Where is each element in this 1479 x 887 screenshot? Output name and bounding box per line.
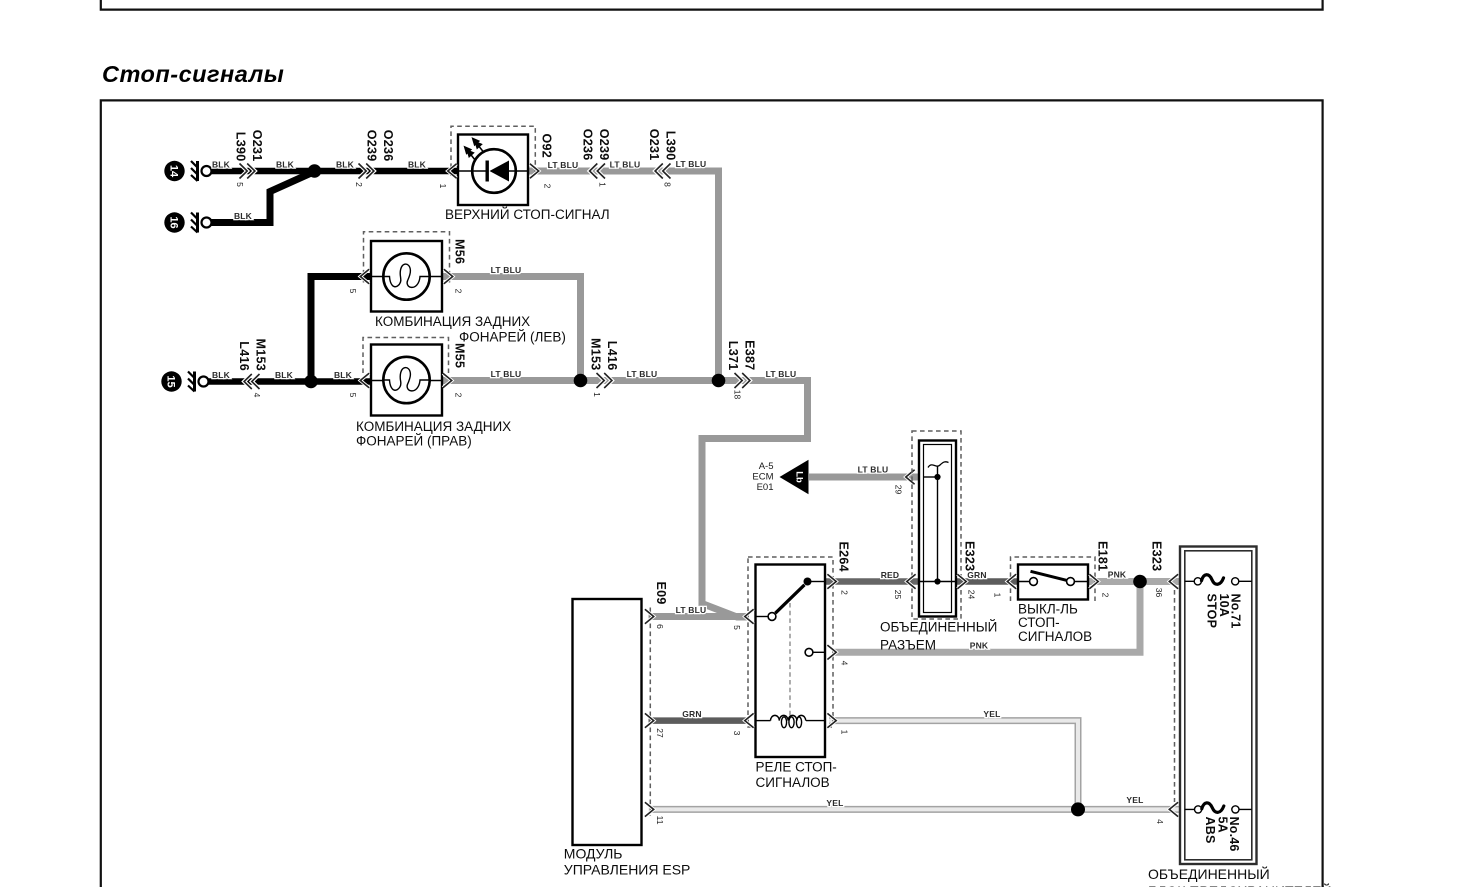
svg-text:L390: L390: [234, 132, 248, 162]
M55 pin 2 chevron: [443, 373, 452, 387]
main diagram frame: [101, 100, 1323, 887]
connector L390/O231 pin 8: [647, 129, 678, 187]
svg-text:E323: E323: [1150, 541, 1164, 571]
svg-text:2: 2: [454, 393, 464, 398]
rear combination lamp RIGHT M55 : body: [371, 345, 442, 416]
lamp pin 1 chevron: [448, 164, 457, 178]
svg-text:E264: E264: [837, 542, 851, 572]
svg-text:ФОНАРЕЙ (ЛЕВ): ФОНАРЕЙ (ЛЕВ): [459, 330, 566, 345]
ground 16: [164, 212, 211, 232]
svg-text:2: 2: [543, 184, 553, 189]
svg-text:M55: M55: [453, 343, 467, 368]
previous diagram frame (bottom edge, top of page): [101, 0, 1323, 10]
svg-text:LT BLU: LT BLU: [491, 265, 522, 275]
svg-text:O231: O231: [250, 130, 264, 162]
connector O231/L390 pin 5: [234, 130, 265, 187]
ECM arrow A-5: [780, 460, 809, 494]
svg-text:O239: O239: [597, 129, 611, 161]
svg-text:РЕЛЕ СТОП-: РЕЛЕ СТОП-: [756, 760, 837, 775]
wire PNK: junction down and left to relay pin 4: [832, 582, 1140, 653]
svg-text:E01: E01: [757, 482, 774, 493]
ESP connector dashed line E09: [649, 608, 651, 817]
rear combination lamp RIGHT M55 : dashed outline: [363, 338, 449, 374]
svg-text:5: 5: [732, 625, 742, 630]
svg-text:M153: M153: [254, 339, 268, 371]
svg-text:BLK: BLK: [234, 211, 253, 221]
svg-text:M56: M56: [453, 239, 467, 264]
node: junction of ground wires: [308, 164, 322, 178]
svg-text:RED: RED: [881, 570, 900, 580]
svg-text:1: 1: [993, 593, 1003, 598]
svg-text:LT BLU: LT BLU: [858, 465, 889, 475]
LED emission arrows: [465, 139, 484, 161]
connector M153/L416 pin 4: [237, 339, 268, 398]
svg-text:L371: L371: [726, 341, 740, 371]
svg-text:GRN: GRN: [967, 570, 987, 580]
fuse box pin 4 chevron: [1169, 802, 1178, 816]
svg-text:PNK: PNK: [970, 641, 989, 651]
pin 29 chevron at joint connector: [906, 470, 915, 484]
relay internal: dashed link: [789, 603, 791, 717]
wire GRN: joint connector pin 24 to stop lamp switch pin 1: [956, 578, 1018, 585]
high mounted stop lamp U1 : body: [458, 135, 528, 206]
svg-text:L416: L416: [237, 341, 251, 371]
svg-text:2: 2: [454, 289, 464, 294]
joint connector pin 25 chevron: [907, 574, 916, 588]
svg-text:ФОНАРЕЙ (ПРАВ): ФОНАРЕЙ (ПРАВ): [356, 434, 472, 449]
M56 pin 5 chevron: [360, 269, 369, 283]
svg-text:МОДУЛЬ: МОДУЛЬ: [564, 846, 623, 862]
LED diode symbol: [486, 161, 489, 182]
svg-text:BLK: BLK: [334, 370, 353, 380]
svg-text:BLK: BLK: [336, 160, 355, 170]
rear combination lamp LEFT M56 : dashed outline: [364, 232, 450, 283]
M56 pin 2 chevron: [444, 269, 453, 283]
joint connector : body (double box): [919, 441, 956, 617]
svg-text:GRN: GRN: [682, 709, 702, 719]
svg-text:КОМБИНАЦИЯ ЗАДНИХ: КОМБИНАЦИЯ ЗАДНИХ: [356, 419, 511, 434]
fuse box pin 36 chevron: [1169, 574, 1178, 588]
wire BLK: junction up to rear lamp (left) pin 5: [311, 277, 371, 382]
connector L416/M153 pin 1: [589, 338, 620, 397]
relay pin 5 chevron: [745, 609, 754, 623]
svg-text:1: 1: [598, 182, 608, 187]
svg-text:M153: M153: [589, 338, 603, 370]
joint connector pin 24 chevron: [957, 574, 966, 588]
svg-text:15: 15: [165, 375, 177, 387]
svg-text:СТОП-: СТОП-: [1018, 615, 1060, 630]
node: junction rear lamp wires: [574, 374, 588, 388]
wire YEL: ESP pin 11 to fuse box pin 4: [649, 806, 1181, 813]
svg-text:LT BLU: LT BLU: [676, 605, 707, 615]
high mounted stop lamp U1 : dashed connector outline: [451, 126, 535, 176]
bulb: [383, 253, 429, 299]
svg-text:E181: E181: [1096, 541, 1110, 571]
wire BLK: ground 15 to rear lamp (right) pin 5: [203, 378, 371, 385]
svg-text:16: 16: [168, 216, 180, 228]
svg-text:ABS: ABS: [1203, 817, 1217, 844]
relay pin 3 chevron: [745, 713, 754, 727]
svg-text:BLK: BLK: [275, 370, 294, 380]
ground 15: [161, 371, 208, 391]
svg-text:E387: E387: [743, 340, 757, 370]
svg-text:O236: O236: [381, 130, 395, 162]
wire BLK: branch from junction to ground 16: [211, 172, 315, 223]
fuse No.46 5A ABS: [1185, 803, 1252, 852]
lamp pin 2 chevron: [530, 164, 539, 178]
svg-text:5: 5: [348, 393, 358, 398]
svg-text:2: 2: [354, 182, 364, 187]
svg-text:BLK: BLK: [212, 160, 231, 170]
connector O236/O239 pin 2: [354, 130, 395, 187]
wire LT BLU: high mounted stop lamp pin 2 right then down: [528, 171, 719, 381]
svg-text:L390: L390: [664, 131, 678, 161]
wire YEL: relay pin 1 right and down to junction: [829, 721, 1078, 810]
svg-text:BLK: BLK: [276, 160, 295, 170]
svg-text:УПРАВЛЕНИЯ ESP: УПРАВЛЕНИЯ ESP: [564, 862, 691, 878]
node: YEL junction: [1071, 802, 1085, 816]
svg-text:LT BLU: LT BLU: [548, 160, 579, 170]
rear combination lamp LEFT M56 : body: [371, 241, 442, 312]
wire BLK: ground 14 to high mounted stop lamp pin 1: [211, 168, 458, 175]
svg-text:STOP: STOP: [1205, 594, 1219, 629]
svg-text:E09: E09: [654, 582, 668, 605]
svg-text:O239: O239: [365, 130, 379, 162]
wire GRN: ESP pin 27 to relay pin 3: [649, 717, 750, 724]
ESP pin 27 chevron: [645, 713, 654, 727]
svg-text:11: 11: [655, 816, 665, 825]
svg-text:6: 6: [655, 624, 665, 629]
relay pin 4 contact: [805, 648, 813, 656]
svg-text:L416: L416: [605, 341, 619, 371]
svg-text:СИГНАЛОВ: СИГНАЛОВ: [1018, 629, 1092, 644]
svg-text:24: 24: [967, 590, 977, 600]
svg-text:5: 5: [348, 289, 358, 294]
relay coil: [756, 720, 771, 722]
svg-text:1: 1: [592, 392, 602, 397]
svg-text:СИГНАЛОВ: СИГНАЛОВ: [756, 775, 830, 790]
node: PNK junction: [1133, 575, 1147, 589]
svg-text:2: 2: [1101, 593, 1111, 598]
M55 pin 5 chevron: [360, 373, 369, 387]
bulb: [383, 357, 429, 403]
svg-text:Стоп-сигналы: Стоп-сигналы: [102, 61, 284, 87]
svg-text:O236: O236: [581, 129, 595, 161]
wire PNK: stop lamp switch pin 2 to fuse box pin 36: [1088, 578, 1180, 585]
stop lamp switch : body: [1018, 565, 1088, 600]
pin line through lamp body: [458, 170, 528, 172]
svg-text:ECM: ECM: [752, 471, 773, 482]
relay pin 4 chevron: [827, 645, 836, 659]
svg-text:LT BLU: LT BLU: [627, 369, 658, 379]
svg-text:ОБЪЕДИНЕННЫЙ: ОБЪЕДИНЕННЫЙ: [1148, 865, 1270, 882]
switch pin 1 chevron: [1007, 574, 1016, 588]
svg-text:YEL: YEL: [826, 798, 843, 808]
svg-text:E323: E323: [963, 541, 977, 571]
svg-text:YEL: YEL: [983, 709, 1000, 719]
svg-text:8: 8: [663, 182, 673, 187]
svg-text:A-5: A-5: [759, 461, 774, 472]
ESP pin 11 chevron: [645, 802, 654, 816]
svg-text:36: 36: [1154, 588, 1164, 598]
joint connector internals: [937, 466, 939, 582]
svg-text:4: 4: [252, 393, 262, 398]
relay pin 2 chevron: [827, 574, 836, 588]
svg-text:O231: O231: [647, 129, 661, 161]
svg-text:4: 4: [1155, 819, 1165, 824]
svg-text:5: 5: [235, 182, 245, 187]
LED circle of high mounted stop lamp: [472, 149, 516, 193]
wire LT BLU: rear lamp (left) pin 2 right then down to junction: [442, 277, 581, 382]
wire RED: relay pin 2 to joint connector pin 25: [825, 578, 919, 585]
joint connector : dashed outline: [912, 431, 961, 619]
svg-text:14: 14: [168, 165, 180, 178]
node: junction on ground 15 wire: [304, 375, 318, 389]
svg-text:25: 25: [893, 590, 903, 600]
relay switch contact: [756, 616, 769, 618]
svg-text:29: 29: [894, 485, 904, 495]
svg-text:Lb: Lb: [794, 471, 805, 483]
svg-text:YEL: YEL: [1126, 795, 1143, 805]
wire LT BLU: rear lamp (right) row to E387 then down-left to relay pin 5: [442, 381, 808, 618]
svg-text:BLK: BLK: [408, 160, 427, 170]
svg-text:LT BLU: LT BLU: [610, 160, 641, 170]
svg-text:4: 4: [840, 661, 850, 666]
relay pin 1 chevron: [827, 713, 836, 727]
svg-text:ОБЪЕДИНЕННЫЙ: ОБЪЕДИНЕННЫЙ: [880, 620, 997, 635]
svg-text:PNK: PNK: [1108, 570, 1127, 580]
svg-text:27: 27: [655, 728, 665, 738]
svg-text:БЛОК ПРЕДОХРАНИТЕЛЕЙ: БЛОК ПРЕДОХРАНИТЕЛЕЙ: [1148, 882, 1332, 887]
fuse box : body (double box): [1180, 547, 1257, 865]
relay: dashed outline: [748, 557, 833, 727]
svg-text:3: 3: [732, 731, 742, 736]
connector E387/L371 pin 18: [726, 340, 757, 399]
connector O239/O236 pin 1: [581, 129, 612, 187]
E323 harness dashed line at fuse box: [1174, 590, 1176, 802]
ESP pin 6 chevron: [645, 609, 654, 623]
svg-text:LT BLU: LT BLU: [491, 369, 522, 379]
stop lamp relay : body: [756, 565, 826, 758]
svg-text:BLK: BLK: [212, 370, 231, 380]
node: junction with high stop lamp wire: [712, 374, 726, 388]
svg-text:O92: O92: [539, 133, 553, 158]
ESP control module : body: [573, 599, 642, 845]
svg-text:КОМБИНАЦИЯ ЗАДНИХ: КОМБИНАЦИЯ ЗАДНИХ: [375, 314, 530, 329]
svg-text:LT BLU: LT BLU: [676, 159, 707, 169]
wire LT BLU: joint connector pin 29 to ECM arrow: [809, 474, 919, 481]
ground 14: [164, 161, 211, 181]
svg-text:1: 1: [438, 184, 448, 189]
svg-text:LT BLU: LT BLU: [766, 369, 797, 379]
svg-text:1: 1: [840, 730, 850, 735]
svg-text:РАЗЪЕМ: РАЗЪЕМ: [880, 638, 936, 653]
svg-text:2: 2: [840, 590, 850, 595]
switch pin 2 chevron: [1089, 574, 1098, 588]
wire LT BLU: ESP pin 6 to relay pin 5: [649, 613, 750, 620]
svg-text:18: 18: [733, 390, 743, 400]
svg-text:ВЕРХНИЙ СТОП-СИГНАЛ: ВЕРХНИЙ СТОП-СИГНАЛ: [445, 207, 610, 222]
stop lamp switch : dashed outline: [1011, 557, 1096, 601]
fuse No.71 10A STOP: [1185, 575, 1252, 629]
